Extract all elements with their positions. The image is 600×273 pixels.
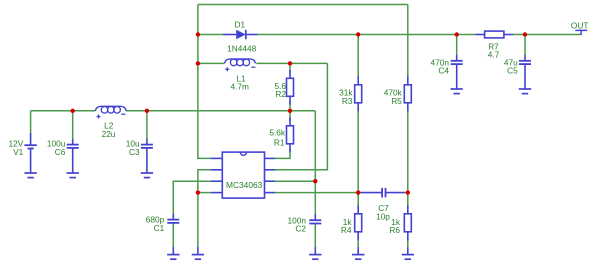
label OUT bbox=[571, 21, 589, 31]
inductor L1 bbox=[225, 59, 256, 71]
junction node J7 bbox=[356, 32, 360, 36]
svg-text:R6: R6 bbox=[389, 225, 400, 235]
junction node J2 bbox=[196, 61, 200, 65]
ground C6 bbox=[67, 166, 79, 178]
wire pin4 bbox=[198, 192, 211, 194]
wire diode row right bbox=[513, 34, 581, 36]
junction node J13 bbox=[196, 190, 200, 194]
diode D1 bbox=[223, 30, 258, 39]
wire C3 top bbox=[146, 111, 148, 139]
wire R6 top bbox=[407, 193, 409, 209]
svg-text:OUT: OUT bbox=[571, 21, 589, 31]
label 4.7m bbox=[230, 82, 249, 92]
capacitor C5 bbox=[519, 55, 531, 82]
inductor L2 bbox=[95, 106, 126, 118]
label 470n bbox=[431, 57, 450, 67]
ground R4 bbox=[352, 247, 364, 259]
wire diode row mid bbox=[258, 34, 476, 36]
resistor R5 bbox=[404, 76, 411, 111]
label R2 bbox=[275, 89, 286, 99]
wire R1 top bbox=[289, 111, 291, 121]
svg-text:MC34063: MC34063 bbox=[226, 180, 263, 190]
svg-text:4.7m: 4.7m bbox=[230, 82, 249, 92]
wire pin5 row bbox=[275, 192, 362, 194]
resistor R4 bbox=[355, 205, 362, 240]
junction node J5 bbox=[71, 109, 75, 113]
label 1N4448 bbox=[227, 44, 256, 54]
wire pin6 bbox=[275, 180, 315, 182]
label C1 bbox=[154, 223, 165, 233]
label MC34063 bbox=[226, 180, 263, 190]
capacitor C6 bbox=[67, 139, 79, 166]
label C6 bbox=[55, 147, 66, 157]
label C2 bbox=[295, 224, 306, 234]
junction node J4 bbox=[288, 109, 292, 113]
wire C7 right to R6 node bbox=[404, 192, 407, 194]
ground C5 bbox=[519, 82, 531, 94]
label 100u bbox=[47, 138, 66, 148]
wire R4 bottom bbox=[357, 232, 359, 248]
wire input row to R1 bbox=[126, 110, 315, 112]
wire L1 row left bbox=[198, 62, 225, 64]
ground rail bbox=[192, 247, 204, 259]
svg-text:C1: C1 bbox=[154, 223, 165, 233]
svg-text:V1: V1 bbox=[13, 147, 24, 157]
wire input row bbox=[31, 110, 96, 112]
label R1 bbox=[274, 137, 285, 147]
label 5.6 bbox=[274, 81, 286, 91]
junction node J10 bbox=[313, 179, 317, 183]
label 4.7 bbox=[488, 50, 500, 60]
wire pin3 to C1 bbox=[173, 181, 211, 214]
label 470k bbox=[384, 87, 403, 97]
label C4 bbox=[438, 65, 449, 75]
svg-text:C2: C2 bbox=[295, 224, 306, 234]
ground C4 bbox=[451, 82, 463, 94]
label R5 bbox=[391, 96, 402, 106]
wire left rail to pin1 bbox=[198, 5, 211, 159]
label V1 bbox=[13, 147, 24, 157]
label 31k bbox=[339, 87, 353, 97]
resistor R7 bbox=[476, 31, 514, 38]
label R3 bbox=[342, 96, 353, 106]
label R6 bbox=[389, 225, 400, 235]
wire R2 top bbox=[289, 63, 291, 73]
wire R6 bottom bbox=[407, 232, 409, 248]
wire R5 bottom bbox=[407, 107, 409, 192]
wire C6 top bbox=[72, 111, 74, 139]
voltage source V1 bbox=[24, 133, 36, 166]
junction node J6 bbox=[145, 109, 149, 113]
label R4 bbox=[341, 225, 352, 235]
label 10p bbox=[376, 211, 390, 221]
wire R3 top bbox=[357, 35, 359, 80]
wire C4 top bbox=[456, 35, 458, 56]
ground C3 bbox=[141, 166, 153, 178]
wire V1 top bbox=[30, 111, 32, 133]
junction node J9 bbox=[523, 32, 527, 36]
node OUT pin bbox=[575, 30, 587, 35]
label R7 bbox=[488, 41, 499, 51]
svg-text:C3: C3 bbox=[129, 147, 140, 157]
resistor R2 bbox=[287, 70, 294, 105]
svg-text:5.6k: 5.6k bbox=[269, 128, 286, 138]
svg-text:C4: C4 bbox=[438, 65, 449, 75]
wire R4 top bbox=[357, 193, 359, 209]
wire C1 bottom bbox=[172, 223, 174, 247]
label 22u bbox=[102, 129, 116, 139]
ground V1 bbox=[24, 166, 36, 178]
label 100n bbox=[288, 215, 307, 225]
wire R2 bottom bbox=[289, 101, 291, 111]
label 10u bbox=[126, 138, 140, 148]
label L1 bbox=[236, 73, 246, 83]
svg-text:4.7: 4.7 bbox=[488, 50, 500, 60]
resistor R6 bbox=[404, 205, 411, 240]
ground C1 bbox=[167, 247, 179, 259]
wire diode row left bbox=[198, 34, 223, 36]
capacitor C7 bbox=[361, 188, 405, 198]
wire C2 bottom bbox=[314, 224, 316, 248]
junction node J3 bbox=[288, 61, 292, 65]
svg-text:10p: 10p bbox=[376, 211, 390, 221]
svg-text:1N4448: 1N4448 bbox=[227, 44, 256, 54]
label C3 bbox=[129, 147, 140, 157]
wire pin7 elbow bbox=[275, 63, 327, 169]
ground R6 bbox=[402, 247, 414, 259]
wire R5 top bbox=[407, 5, 409, 80]
svg-text:C6: C6 bbox=[55, 147, 66, 157]
wire R3 bottom bbox=[357, 107, 359, 192]
junction node J11 bbox=[356, 190, 360, 194]
label C5 bbox=[507, 65, 518, 75]
wire L1 row right bbox=[256, 62, 327, 64]
wire top bus bbox=[198, 4, 408, 6]
label 680p bbox=[146, 214, 165, 224]
label 1k R4 bbox=[343, 217, 353, 227]
label C7 bbox=[378, 203, 389, 213]
wire C5 top bbox=[524, 35, 526, 56]
svg-text:C5: C5 bbox=[507, 65, 518, 75]
junction node J8 bbox=[455, 32, 459, 36]
ground C2 bbox=[309, 247, 321, 259]
label 1k R6 bbox=[391, 217, 401, 227]
capacitor C2 bbox=[309, 214, 321, 223]
wire R1 bottom to pin8 bbox=[275, 148, 290, 158]
resistor R1 bbox=[287, 117, 294, 152]
label L2 bbox=[104, 121, 114, 131]
resistor R3 bbox=[355, 76, 362, 111]
label 5.6k bbox=[269, 128, 286, 138]
capacitor C3 bbox=[141, 139, 153, 166]
junction node J1 bbox=[196, 32, 200, 36]
label D1 bbox=[234, 20, 245, 30]
capacitor C4 bbox=[451, 55, 463, 82]
junction node J12 bbox=[406, 190, 410, 194]
op-amp U1 MC34063 bbox=[211, 152, 275, 198]
svg-text:R5: R5 bbox=[391, 96, 402, 106]
svg-text:R3: R3 bbox=[342, 96, 353, 106]
label 12V bbox=[9, 138, 24, 148]
svg-text:R4: R4 bbox=[341, 225, 352, 235]
svg-text:D1: D1 bbox=[234, 20, 245, 30]
svg-text:R2: R2 bbox=[275, 89, 286, 99]
label 47u bbox=[504, 57, 518, 67]
svg-text:22u: 22u bbox=[102, 129, 116, 139]
svg-text:R1: R1 bbox=[274, 137, 285, 147]
wire comp to C2 bbox=[314, 111, 316, 215]
wire pin2 ground rail bbox=[198, 170, 211, 248]
capacitor C1 bbox=[167, 214, 179, 223]
